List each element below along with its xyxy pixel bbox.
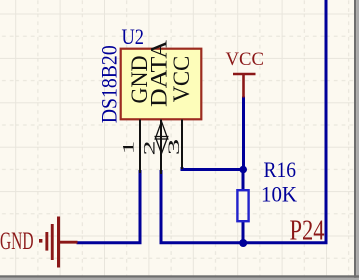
svg-text:VCC: VCC [226, 49, 265, 70]
wire R16 bottom lead [242, 222, 245, 244]
resistor R16 body [237, 190, 248, 221]
wire VCC stem (blue part) [242, 97, 245, 170]
wire pin3 to VCC/R16 node [182, 167, 243, 170]
pin 2 IO arrow up [155, 122, 168, 140]
junction node VCC/R16 [239, 166, 247, 174]
IC U2 (DS18B20) body [121, 49, 202, 120]
svg-text:R16: R16 [264, 157, 297, 182]
wire pin1 to ground [77, 170, 141, 243]
junction node R16/DATA [239, 239, 247, 247]
svg-text:VCC: VCC [169, 56, 194, 103]
svg-text:2: 2 [142, 141, 159, 156]
svg-text:1: 1 [121, 141, 138, 155]
power port VCC [226, 49, 265, 98]
svg-text:DATA: DATA [147, 40, 172, 107]
pin 3 [181, 120, 183, 170]
svg-text:P24: P24 [290, 216, 325, 247]
svg-text:3: 3 [166, 139, 183, 156]
pin 2 [160, 120, 162, 175]
svg-text:GND: GND [0, 228, 34, 255]
svg-text:U2: U2 [122, 24, 145, 49]
pin 1 [139, 120, 141, 174]
pin 2 IO arrow down [155, 137, 168, 154]
wire R16 top lead [242, 170, 245, 191]
svg-text:10K: 10K [261, 182, 297, 207]
ground symbol GND [0, 217, 78, 268]
wire DATA net: pin2 down, bottom run, right riser P24 [161, 0, 326, 243]
svg-text:DS18B20: DS18B20 [96, 45, 121, 123]
